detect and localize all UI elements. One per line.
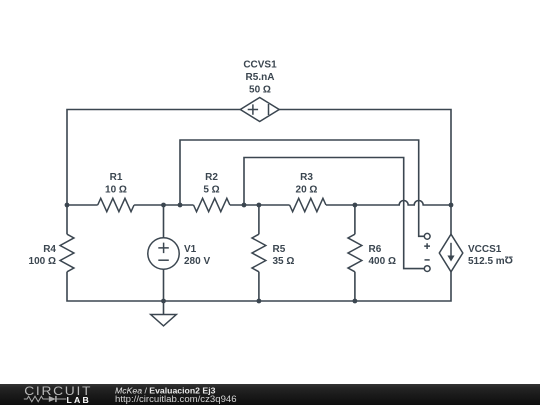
svg-text:280 V: 280 V bbox=[184, 256, 210, 267]
svg-text:R1: R1 bbox=[110, 172, 123, 183]
svg-text:CCVS1: CCVS1 bbox=[243, 60, 277, 71]
svg-text:R2: R2 bbox=[205, 172, 218, 183]
svg-text:R6: R6 bbox=[369, 244, 382, 255]
svg-text:50 Ω: 50 Ω bbox=[249, 85, 271, 96]
svg-text:10 Ω: 10 Ω bbox=[105, 185, 127, 196]
svg-text:R3: R3 bbox=[300, 172, 313, 183]
svg-text:512.5 m: 512.5 m bbox=[468, 256, 505, 267]
svg-text:R4: R4 bbox=[43, 244, 56, 255]
svg-text:5 Ω: 5 Ω bbox=[203, 185, 219, 196]
svg-text:35 Ω: 35 Ω bbox=[273, 256, 295, 267]
svg-text:20 Ω: 20 Ω bbox=[296, 185, 318, 196]
svg-text:Ω: Ω bbox=[505, 253, 513, 265]
svg-text:100 Ω: 100 Ω bbox=[29, 256, 56, 267]
svg-text:400 Ω: 400 Ω bbox=[369, 256, 396, 267]
svg-text:LAB: LAB bbox=[67, 395, 91, 405]
svg-text:V1: V1 bbox=[184, 244, 197, 255]
svg-text:R5: R5 bbox=[273, 244, 286, 255]
svg-text:R5.nA: R5.nA bbox=[246, 72, 275, 83]
svg-text:VCCS1: VCCS1 bbox=[468, 244, 502, 255]
svg-text:http://circuitlab.com/cz3q946: http://circuitlab.com/cz3q946 bbox=[115, 394, 237, 405]
